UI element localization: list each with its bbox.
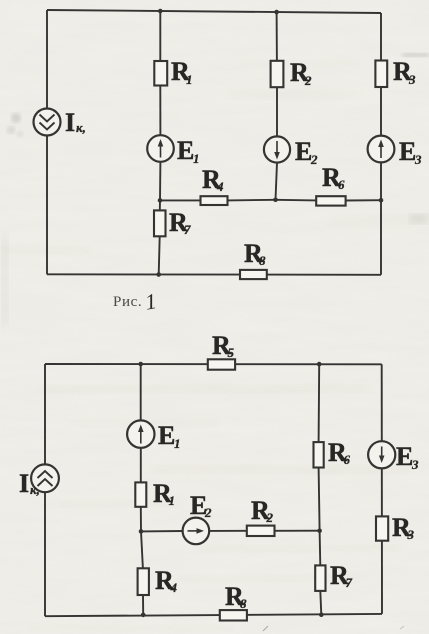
svg-text:4: 4 bbox=[170, 580, 178, 595]
label Ik (bottom circuit) bbox=[19, 469, 40, 498]
label E2 (bottom circuit) bbox=[190, 491, 212, 520]
wire: R1 to E1 bbox=[159, 86, 161, 136]
resistor R4 (bottom circuit) bbox=[138, 568, 149, 595]
svg-text:E: E bbox=[177, 136, 194, 165]
svg-text:7: 7 bbox=[184, 222, 191, 237]
label E3 (bottom circuit) bbox=[396, 442, 419, 472]
svg-text:6: 6 bbox=[338, 177, 345, 192]
svg-text:1: 1 bbox=[186, 72, 193, 87]
node: top wire / R2 branch bbox=[274, 10, 279, 15]
source E3 (bottom circuit), arrow down bbox=[368, 441, 395, 468]
label R8 bbox=[244, 239, 266, 268]
wire: E2 to node bbox=[276, 163, 278, 200]
resistor R5 bbox=[208, 359, 235, 369]
svg-text:1: 1 bbox=[174, 436, 181, 451]
label E2 (top circuit) bbox=[295, 137, 318, 167]
label R3 bbox=[393, 57, 416, 87]
node: bottom wire / R7 branch bbox=[319, 612, 324, 617]
node: bottom wire / R7 bbox=[156, 272, 161, 277]
wire: node to R4 bbox=[160, 199, 201, 201]
wire: E2 to R2 bbox=[209, 530, 247, 532]
svg-text:8: 8 bbox=[259, 253, 266, 268]
label R1 bbox=[171, 57, 193, 87]
label R7 (bottom circuit) bbox=[330, 561, 353, 590]
wire: node to R4 bbox=[141, 531, 143, 568]
svg-text:2: 2 bbox=[304, 73, 312, 88]
resistor R1 bbox=[154, 61, 167, 86]
wire: R7 to bottom bbox=[320, 591, 321, 615]
label R7 bbox=[169, 208, 191, 237]
resistor R6 (middle right) bbox=[316, 196, 345, 205]
wire: node to R7 bbox=[159, 200, 161, 210]
wire: R2 branch upper bbox=[276, 12, 278, 61]
source E1 (bottom circuit), arrow up bbox=[127, 420, 154, 447]
svg-text:I: I bbox=[65, 108, 75, 137]
node: E2 branch / middle wire bbox=[273, 198, 278, 203]
resistor R7 bbox=[154, 210, 166, 236]
svg-text:1: 1 bbox=[193, 151, 200, 166]
label R4 (bottom circuit) bbox=[155, 566, 178, 595]
node: R4 wire left bbox=[158, 198, 163, 203]
wire: R2 to E2 bbox=[276, 87, 278, 136]
resistor R3 (bottom circuit right edge) bbox=[376, 516, 388, 540]
node: top wire / E1 branch bbox=[138, 362, 143, 367]
wire: node to E2 bbox=[141, 530, 183, 532]
label R2 bbox=[290, 58, 312, 88]
node: top wire / R6 branch bbox=[317, 362, 322, 367]
wire: bottom circuit left edge bbox=[44, 364, 46, 616]
svg-text:к,: к, bbox=[30, 482, 40, 497]
wire: R4 to E2 node bbox=[228, 199, 276, 202]
resistor R2 bbox=[271, 61, 284, 87]
source E2 (top circuit), arrow down bbox=[264, 136, 290, 162]
wire: R7 to bottom bbox=[159, 236, 160, 274]
wire: node to R6 bbox=[276, 199, 317, 202]
resistor R3 bbox=[375, 61, 387, 88]
resistor R1 (bottom circuit) bbox=[135, 482, 146, 506]
svg-text:Рис.: Рис. bbox=[113, 294, 142, 310]
wire: E1 branch upper bbox=[140, 364, 142, 420]
wire: top circuit top side bbox=[47, 10, 381, 13]
wire: R6 to right edge bbox=[346, 199, 381, 201]
wire: E1 to node bbox=[159, 162, 161, 201]
svg-text:3: 3 bbox=[408, 72, 416, 87]
svg-text:6: 6 bbox=[344, 452, 351, 467]
wire: top circuit bottom side bbox=[47, 273, 381, 276]
svg-text:I: I bbox=[19, 469, 29, 498]
source E1 (top circuit), arrow up bbox=[147, 135, 174, 162]
wire: R1 to middle node bbox=[140, 507, 142, 532]
wire: R6 branch upper bbox=[318, 364, 321, 442]
svg-text:E: E bbox=[396, 442, 413, 471]
source E2 (bottom circuit), arrow right bbox=[183, 518, 210, 545]
svg-text:к,: к, bbox=[76, 120, 86, 135]
label R5 bbox=[212, 331, 235, 360]
node: middle wire right bbox=[317, 528, 322, 533]
svg-text:2: 2 bbox=[204, 505, 212, 520]
label E1 (top circuit) bbox=[177, 136, 200, 166]
label R8 (bottom circuit) bbox=[225, 582, 247, 611]
resistor R7 (bottom circuit) bbox=[315, 565, 325, 591]
svg-text:3: 3 bbox=[414, 152, 422, 167]
node: middle wire left bbox=[139, 529, 144, 534]
source E3 (top circuit), arrow up bbox=[368, 136, 395, 163]
label R3 (bottom circuit) bbox=[392, 513, 415, 542]
label R2 (bottom circuit) bbox=[251, 496, 274, 525]
svg-text:4: 4 bbox=[216, 179, 224, 194]
caption: Fig 1 bbox=[113, 288, 158, 315]
node: bottom wire / R4 branch bbox=[141, 613, 146, 618]
svg-text:E: E bbox=[399, 137, 416, 166]
resistor R8 bbox=[240, 270, 267, 279]
svg-text:1: 1 bbox=[169, 493, 176, 508]
wire: bottom circuit right edge bbox=[381, 364, 383, 614]
label E1 (bottom circuit) bbox=[158, 421, 181, 451]
label R6 (bottom circuit) bbox=[328, 438, 351, 467]
resistor R8 (bottom circuit) bbox=[220, 610, 247, 620]
svg-text:2: 2 bbox=[310, 152, 318, 167]
label Ik (top circuit) bbox=[65, 108, 86, 137]
svg-text:2: 2 bbox=[266, 510, 274, 525]
resistor R6 (bottom circuit) bbox=[314, 442, 324, 467]
svg-text:3: 3 bbox=[407, 527, 415, 542]
wire: node to R7 bbox=[319, 531, 322, 566]
wire: R1 branch upper bbox=[159, 11, 161, 61]
svg-text:8: 8 bbox=[240, 596, 247, 611]
svg-text:7: 7 bbox=[346, 575, 353, 590]
label E3 (top circuit) bbox=[399, 137, 422, 167]
wire: bottom circuit bottom side bbox=[45, 614, 382, 616]
resistor R4 bbox=[201, 196, 228, 205]
label R6 (middle right) bbox=[322, 163, 345, 192]
svg-text:E: E bbox=[158, 421, 175, 450]
wire: R6 to middle node bbox=[319, 468, 320, 531]
label R4 bbox=[202, 165, 224, 194]
resistor R2 (bottom circuit) bbox=[247, 526, 275, 536]
wire: R2 to right node bbox=[275, 530, 320, 532]
svg-text:3: 3 bbox=[411, 457, 419, 472]
current source Ik (bottom circuit), arrows up bbox=[31, 464, 59, 492]
svg-text:5: 5 bbox=[228, 345, 235, 360]
wire: top circuit left edge bbox=[46, 10, 48, 274]
node: right edge / middle wire bbox=[379, 198, 384, 203]
wire: top circuit right edge bbox=[380, 13, 382, 275]
node: top wire / R1 branch bbox=[158, 9, 163, 14]
current source Ik (top circuit), arrows down bbox=[34, 109, 61, 136]
label R1 (bottom circuit) bbox=[153, 479, 175, 508]
wire: R4 to bottom bbox=[142, 595, 144, 615]
wire: E1 to R1 bbox=[140, 448, 142, 483]
wire: bottom circuit top side bbox=[45, 363, 382, 365]
svg-text:E: E bbox=[295, 137, 312, 166]
